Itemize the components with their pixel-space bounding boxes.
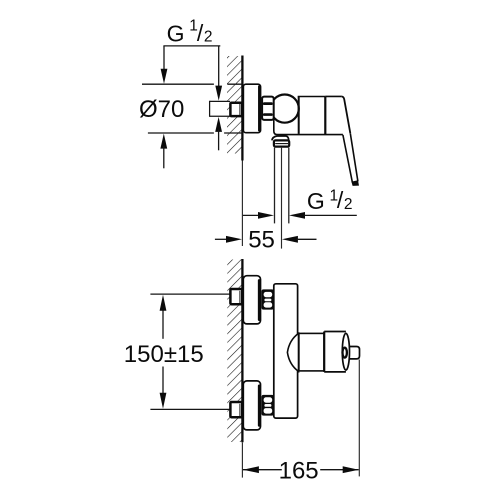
faucet body (plan)	[274, 284, 298, 418]
lever blade	[350, 133, 358, 181]
cartridge housing	[298, 96, 326, 98]
outlet union nut	[274, 140, 289, 146]
wall union square	[230, 103, 242, 116]
G 1/2 shelf line (top)	[163, 45, 220, 47]
wall hatching (upper)	[227, 56, 242, 154]
svg-text:G: G	[307, 188, 325, 214]
cartridge housing (plan)	[299, 333, 324, 371]
cap dome ellipse	[342, 333, 349, 370]
lever shaft mini ellipse	[343, 348, 347, 358]
dimension line Ø70 top edge	[142, 83, 214, 85]
leader vertical left	[163, 46, 165, 71]
svg-text:150±15: 150±15	[124, 341, 204, 368]
outlet thread lines	[274, 148, 276, 224]
outlet center line	[281, 148, 283, 249]
wall face line (lower)	[241, 259, 243, 442]
svg-text:/: /	[337, 187, 344, 213]
escutcheon flange (side)	[243, 84, 260, 133]
55 dimension	[215, 238, 228, 240]
wall hatching (lower)	[227, 260, 242, 443]
handle cap	[325, 95, 341, 97]
svg-text:/: /	[197, 20, 204, 46]
svg-text:2: 2	[344, 196, 353, 213]
valve body circle	[271, 95, 299, 123]
S-union flange (bottom)	[243, 381, 260, 430]
S-union flange (top)	[243, 276, 260, 324]
extension line bottom connection	[150, 408, 230, 410]
hex nut (side)	[262, 97, 274, 120]
dimension line Ø70 bottom edge	[148, 132, 214, 134]
arrow down at flange top	[161, 69, 168, 84]
handle cap (plan)	[324, 331, 346, 333]
lever stub (plan)	[344, 347, 359, 359]
svg-text:165: 165	[279, 458, 319, 485]
wall face extension line (thin, down to dims)	[241, 161, 243, 247]
body bottom outline	[274, 120, 343, 135]
arrow up at flange bottom	[160, 134, 167, 149]
extension line top connection	[150, 293, 230, 295]
extension line from stub	[358, 360, 360, 477]
150±15 dimension line	[162, 309, 164, 339]
leader vertical right	[218, 46, 220, 88]
svg-text:Ø70: Ø70	[139, 96, 184, 123]
outlet collar	[272, 136, 289, 141]
supply pipe in wall	[210, 100, 230, 102]
arrow up at pipe bottom	[215, 117, 222, 132]
union nut (top)	[262, 289, 274, 309]
G 1/2 dimension (bottom, outlet thread)	[243, 214, 260, 216]
165 dimension	[243, 469, 282, 471]
wall union square (top)	[230, 289, 242, 304]
svg-text:2: 2	[204, 29, 213, 46]
wall union square (bottom)	[230, 402, 242, 417]
wall face line (upper)	[241, 56, 243, 161]
cone transition	[287, 333, 298, 371]
svg-text:G: G	[167, 21, 185, 47]
union nut (bottom)	[262, 395, 274, 416]
arrow down at pipe top	[215, 86, 222, 101]
svg-text:55: 55	[248, 226, 275, 253]
